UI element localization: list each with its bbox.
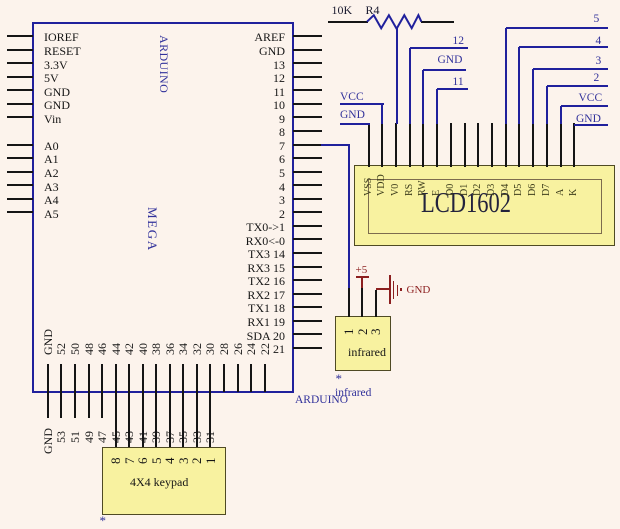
pin 6 (right) stub bbox=[293, 157, 322, 159]
pin label 44 (vertical) bbox=[110, 343, 122, 355]
LCD pin D4 stub bbox=[505, 123, 507, 167]
pin label 8 bbox=[183, 125, 285, 140]
LCD pin VSS stub bbox=[368, 123, 370, 167]
net label 41 (vertical) bbox=[137, 431, 149, 443]
LCD pin name V0 bbox=[391, 184, 401, 196]
wire net GND bbox=[574, 124, 608, 126]
pin label GND (vertical) bbox=[42, 329, 54, 355]
pin label A3 bbox=[44, 180, 59, 195]
pin A1 (left) stub bbox=[7, 157, 33, 159]
pin label AREF bbox=[183, 30, 285, 45]
resistor R4 zigzag bbox=[363, 11, 425, 35]
pin label 10 bbox=[183, 98, 285, 113]
wire net 5 bbox=[506, 27, 609, 29]
LCD pin K stub bbox=[573, 123, 575, 167]
pin label 4 bbox=[183, 180, 285, 195]
pin IOREF (left) stub bbox=[7, 35, 33, 37]
wire VCC to VDD bbox=[340, 103, 384, 105]
LCD pin D2 stub bbox=[477, 123, 479, 167]
pin label IOREF bbox=[44, 30, 79, 45]
arduino designator text bbox=[295, 394, 348, 406]
LCD pin name RS bbox=[405, 184, 415, 196]
pin label 3 bbox=[183, 193, 285, 208]
pin RX2 17 (right) stub bbox=[293, 293, 322, 295]
pin label 5V bbox=[44, 71, 59, 86]
LCD pin name VSS bbox=[364, 178, 374, 196]
part name MEGA (vertical) bbox=[146, 207, 159, 252]
pin label TX1 18 bbox=[183, 301, 285, 316]
pin label 52 (vertical) bbox=[55, 343, 67, 355]
pin 48 (bottom) stub bbox=[88, 364, 90, 392]
pin GND (left) stub bbox=[7, 103, 33, 105]
pin 38 (bottom) stub bbox=[155, 364, 157, 392]
infrared pin name 2 bbox=[356, 328, 369, 335]
wire GND to VSS bbox=[340, 123, 370, 125]
wire GND to RW bbox=[423, 69, 466, 71]
wire 11 drop to E bbox=[436, 89, 438, 125]
net label 39 (vertical) bbox=[150, 431, 162, 443]
pin 9 (right) stub bbox=[293, 116, 322, 118]
pin RX0&lt;-0 (right) stub bbox=[293, 238, 322, 240]
LCD pin name D5 bbox=[514, 184, 524, 196]
wire net 2 bbox=[547, 85, 609, 87]
pin label Vin bbox=[44, 112, 61, 127]
wire net VCC bbox=[561, 105, 609, 107]
infrared part name bbox=[348, 345, 386, 360]
wire VCC drop to VDD bbox=[381, 104, 383, 124]
pin RX3 15 (right) stub bbox=[293, 266, 322, 268]
net label GND bbox=[576, 113, 601, 125]
keypad pin name 5 bbox=[150, 457, 163, 464]
net label 3 bbox=[596, 55, 602, 67]
pin 5 (right) stub bbox=[293, 171, 322, 173]
LCD pin name D7 bbox=[542, 184, 552, 196]
net label 33 (vertical) bbox=[191, 431, 203, 443]
LCD pin name RW bbox=[418, 180, 428, 196]
keypad designator * bbox=[100, 513, 107, 529]
wire stub net GND bbox=[47, 392, 49, 418]
pin 40 (bottom) stub bbox=[142, 364, 144, 392]
wire VCC drop bbox=[560, 106, 562, 124]
net label 45 (vertical) bbox=[110, 431, 122, 443]
pin GND (left) stub bbox=[7, 89, 33, 91]
wire net 11 to E bbox=[437, 88, 467, 90]
pin A0 (left) stub bbox=[7, 144, 33, 146]
pin label 34 (vertical) bbox=[177, 343, 189, 355]
infrared pin 1 stub bbox=[348, 288, 350, 317]
wire net 4 bbox=[519, 46, 608, 48]
wire pin7 to infrared bbox=[321, 144, 350, 146]
pin label 6 bbox=[183, 152, 285, 167]
pin label 26 (vertical) bbox=[232, 343, 244, 355]
ground net label GND bbox=[407, 284, 431, 296]
pin 22 (bottom) stub bbox=[264, 364, 266, 392]
LCD pin name K bbox=[569, 189, 579, 196]
net label 12 bbox=[453, 35, 465, 47]
pin label 21 bbox=[183, 342, 285, 357]
pin label 12 bbox=[183, 71, 285, 86]
R4 left lead bbox=[328, 21, 368, 23]
pin label 40 (vertical) bbox=[137, 343, 149, 355]
pin 32 (bottom) stub bbox=[196, 364, 198, 392]
wire 3 drop bbox=[532, 69, 534, 125]
wire drop to infrared pin 1 bbox=[348, 145, 350, 289]
pin label 9 bbox=[183, 112, 285, 127]
LCD pin name D1 bbox=[460, 184, 470, 196]
pin 50 (bottom) stub bbox=[74, 364, 76, 392]
wire to keypad pin 3 bbox=[182, 392, 184, 448]
keypad pin name 8 bbox=[109, 457, 122, 464]
pin label RESET bbox=[44, 44, 81, 59]
pin label 24 (vertical) bbox=[245, 343, 257, 355]
pin label 13 bbox=[183, 58, 285, 73]
infrared designator text bbox=[335, 387, 371, 399]
resistor R4 value 10K bbox=[332, 3, 353, 18]
net label 31 (vertical) bbox=[204, 431, 216, 443]
pin label 36 (vertical) bbox=[164, 343, 176, 355]
pin TX1 18 (right) stub bbox=[293, 306, 322, 308]
wire 2 drop bbox=[546, 86, 548, 125]
pin label 2 bbox=[183, 207, 285, 222]
infrared pin name 3 bbox=[369, 328, 382, 335]
wire to keypad pin 5 bbox=[155, 392, 157, 448]
pin GND (bottom) stub bbox=[47, 364, 49, 392]
infrared body bbox=[335, 316, 392, 371]
LCD pin D0 stub bbox=[450, 123, 452, 167]
pin label SDA 20 bbox=[183, 329, 285, 344]
keypad pin name 4 bbox=[163, 457, 176, 464]
pin SDA 20 (right) stub bbox=[293, 333, 322, 335]
pin label 50 (vertical) bbox=[69, 343, 81, 355]
pin TX0-&gt;1 (right) stub bbox=[293, 225, 322, 227]
net label GND (vertical) bbox=[42, 428, 54, 454]
pin Vin (left) stub bbox=[7, 116, 33, 118]
keypad part name bbox=[130, 475, 188, 490]
pin 44 (bottom) stub bbox=[115, 364, 117, 392]
keypad pin name 6 bbox=[136, 457, 149, 464]
net label GND bbox=[340, 109, 365, 121]
pin label 5 bbox=[183, 166, 285, 181]
wire net 3 bbox=[533, 68, 608, 70]
net label 53 (vertical) bbox=[55, 431, 67, 443]
net label 35 (vertical) bbox=[177, 431, 189, 443]
pin TX3 14 (right) stub bbox=[293, 252, 322, 254]
pin A4 (left) stub bbox=[7, 198, 33, 200]
pin 8 (right) stub bbox=[293, 130, 322, 132]
pin AREF (right) stub bbox=[293, 35, 322, 37]
pin label A0 bbox=[44, 139, 59, 154]
LCD pin name D0 bbox=[446, 184, 456, 196]
infrared pin 3 stub bbox=[375, 290, 377, 318]
wire stub net 53 bbox=[60, 392, 62, 418]
net label 11 bbox=[453, 76, 464, 88]
wire to keypad pin 7 bbox=[128, 392, 130, 448]
net label 2 bbox=[594, 72, 600, 84]
keypad pin name 7 bbox=[123, 457, 136, 464]
R4 right lead bbox=[421, 21, 454, 23]
pin 12 (right) stub bbox=[293, 76, 322, 78]
LCD pin name D4 bbox=[501, 184, 511, 196]
pin label A4 bbox=[44, 193, 59, 208]
resistor R4 designator bbox=[366, 3, 380, 18]
pin 34 (bottom) stub bbox=[182, 364, 184, 392]
pin label 30 (vertical) bbox=[204, 343, 216, 355]
pin 7 (right) stub bbox=[293, 144, 322, 146]
pin A2 (left) stub bbox=[7, 171, 33, 173]
wire stub net 51 bbox=[74, 392, 76, 418]
pin label GND bbox=[44, 98, 70, 113]
pin label 48 (vertical) bbox=[83, 343, 95, 355]
wire net 12 to RS bbox=[410, 47, 468, 49]
LCD pin D6 stub bbox=[532, 123, 534, 167]
pin 46 (bottom) stub bbox=[101, 364, 103, 392]
wire to keypad pin 4 bbox=[169, 392, 171, 448]
pin 30 (bottom) stub bbox=[209, 364, 211, 392]
wire 4 drop bbox=[518, 47, 520, 125]
keypad pin name 1 bbox=[204, 457, 217, 464]
pin label 11 bbox=[183, 85, 285, 100]
pin label GND bbox=[44, 85, 70, 100]
LCD pin name D6 bbox=[528, 184, 538, 196]
pin 21 (right) stub bbox=[293, 347, 322, 349]
pin GND (right) stub bbox=[293, 49, 322, 51]
net label 5 bbox=[594, 13, 600, 25]
wire GND drop to RW bbox=[422, 70, 424, 124]
pin label A5 bbox=[44, 207, 59, 222]
wire to keypad pin 6 bbox=[142, 392, 144, 448]
designator text ARDUINO (vertical) bbox=[158, 35, 170, 93]
LCD pin D1 stub bbox=[464, 123, 466, 167]
pin A3 (left) stub bbox=[7, 184, 33, 186]
pin 11 (right) stub bbox=[293, 89, 322, 91]
LCD1602 inner rectangle bbox=[368, 179, 602, 234]
net label 47 (vertical) bbox=[96, 431, 108, 443]
pin label 7 bbox=[183, 139, 285, 154]
LCD pin name A bbox=[556, 189, 566, 196]
net label 51 (vertical) bbox=[69, 431, 81, 443]
pin RX1 19 (right) stub bbox=[293, 320, 322, 322]
wire to keypad pin 8 bbox=[115, 392, 117, 448]
pin label 3.3V bbox=[44, 58, 68, 73]
net label 4 bbox=[596, 35, 602, 47]
LCD pin D3 stub bbox=[491, 123, 493, 167]
LCD1602 part name bbox=[421, 188, 511, 220]
keypad pin name 3 bbox=[177, 457, 190, 464]
pin label A2 bbox=[44, 166, 59, 181]
wire 5 drop bbox=[505, 28, 507, 124]
pin 24 (bottom) stub bbox=[250, 364, 252, 392]
pin 13 (right) stub bbox=[293, 62, 322, 64]
net label 43 (vertical) bbox=[123, 431, 135, 443]
net label VCC bbox=[579, 92, 603, 104]
pin label RX1 19 bbox=[183, 315, 285, 330]
wire stub net 49 bbox=[88, 392, 90, 418]
LCD pin RS stub bbox=[409, 123, 411, 167]
LCD pin name D3 bbox=[487, 184, 497, 196]
pin 26 (bottom) stub bbox=[237, 364, 239, 392]
pin 28 (bottom) stub bbox=[223, 364, 225, 392]
infrared pin name 1 bbox=[342, 328, 355, 335]
pin 3 (right) stub bbox=[293, 198, 322, 200]
infrared designator * bbox=[336, 371, 343, 387]
LCD pin D7 stub bbox=[546, 123, 548, 167]
pin 10 (right) stub bbox=[293, 103, 322, 105]
wire to keypad pin 2 bbox=[196, 392, 198, 448]
pin 4 (right) stub bbox=[293, 184, 322, 186]
pin label RX0&lt;-0 bbox=[183, 234, 285, 249]
wire 12 drop to RS bbox=[409, 48, 411, 124]
pin label TX3 14 bbox=[183, 247, 285, 262]
LCD pin name VDD bbox=[377, 174, 387, 196]
LCD pin RW stub bbox=[422, 123, 424, 167]
pin label 32 (vertical) bbox=[191, 343, 203, 355]
pin A5 (left) stub bbox=[7, 211, 33, 213]
pin label TX2 16 bbox=[183, 274, 285, 289]
keypad body 4X4 bbox=[102, 447, 226, 516]
R4 wiper wire to V0 bbox=[396, 28, 398, 125]
pin 36 (bottom) stub bbox=[169, 364, 171, 392]
ground symbol bbox=[376, 288, 390, 290]
wire stub net 47 bbox=[101, 392, 103, 418]
pin label GND bbox=[183, 44, 285, 59]
LCD1602 body bbox=[354, 165, 615, 246]
infrared pin 2 stub bbox=[361, 288, 363, 318]
LCD pin name D2 bbox=[473, 184, 483, 196]
arduino mega U1 body bbox=[32, 22, 294, 394]
net label GND (RW) bbox=[438, 54, 463, 66]
pin label TX0-&gt;1 bbox=[183, 220, 285, 235]
power +5 symbol bbox=[356, 264, 368, 276]
pin 42 (bottom) stub bbox=[128, 364, 130, 392]
pin 5V (left) stub bbox=[7, 76, 33, 78]
net label 49 (vertical) bbox=[83, 431, 95, 443]
keypad pin name 2 bbox=[190, 457, 203, 464]
pin label 38 (vertical) bbox=[150, 343, 162, 355]
LCD pin D5 stub bbox=[518, 123, 520, 167]
pin label 22 (vertical) bbox=[259, 343, 271, 355]
wire to keypad pin 1 bbox=[209, 392, 211, 448]
net label 37 (vertical) bbox=[164, 431, 176, 443]
pin label 28 (vertical) bbox=[218, 343, 230, 355]
pin label RX3 15 bbox=[183, 261, 285, 276]
pin label A1 bbox=[44, 152, 59, 167]
LCD pin A stub bbox=[560, 123, 562, 167]
pin label RX2 17 bbox=[183, 288, 285, 303]
LCD pin VDD stub bbox=[381, 123, 383, 167]
pin 2 (right) stub bbox=[293, 211, 322, 213]
pin 3.3V (left) stub bbox=[7, 62, 33, 64]
pin label 46 (vertical) bbox=[96, 343, 108, 355]
pin 52 (bottom) stub bbox=[60, 364, 62, 392]
pin label 42 (vertical) bbox=[123, 343, 135, 355]
pin TX2 16 (right) stub bbox=[293, 279, 322, 281]
LCD pin E stub bbox=[436, 123, 438, 167]
pin RESET (left) stub bbox=[7, 49, 33, 51]
net label VCC bbox=[340, 91, 364, 103]
LCD pin name E bbox=[432, 190, 442, 196]
LCD pin V0 stub bbox=[395, 123, 397, 167]
